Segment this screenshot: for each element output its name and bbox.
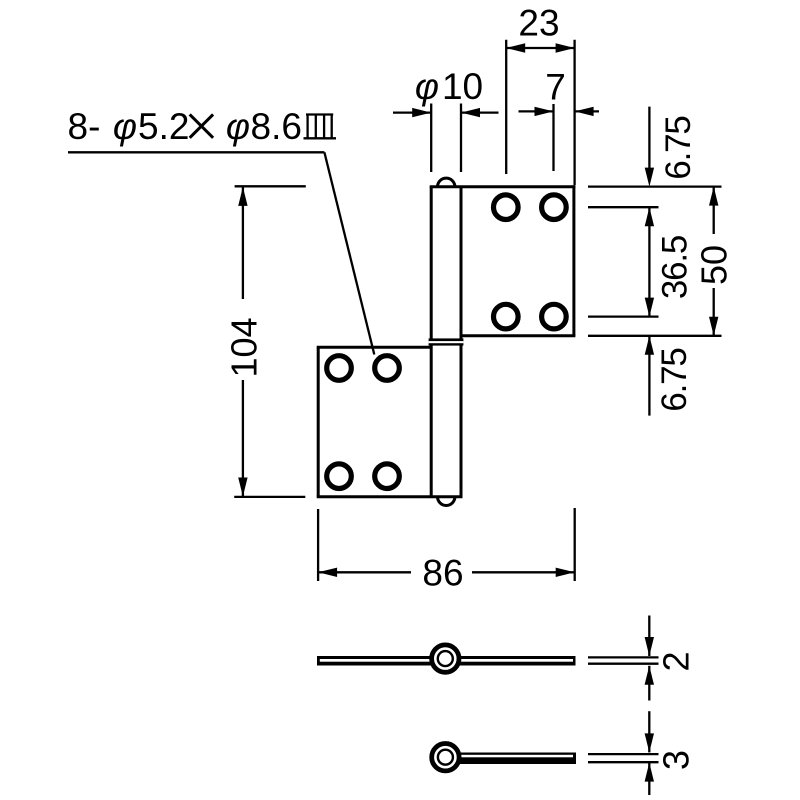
svg-text:2: 2 (656, 651, 697, 671)
svg-text:φ: φ (113, 106, 137, 147)
svg-text:6.75: 6.75 (659, 116, 698, 179)
svg-text:7: 7 (545, 67, 566, 108)
svg-text:50: 50 (694, 245, 735, 285)
svg-text:23: 23 (518, 2, 559, 43)
svg-text:8.6: 8.6 (251, 106, 302, 147)
svg-text:36.5: 36.5 (656, 236, 695, 299)
svg-text:5.2: 5.2 (138, 106, 189, 147)
svg-text:6.75: 6.75 (655, 348, 694, 411)
svg-text:φ: φ (226, 106, 250, 147)
svg-text:φ10: φ10 (415, 66, 483, 107)
svg-text:86: 86 (422, 553, 463, 594)
svg-text:104: 104 (224, 317, 265, 377)
svg-text:3: 3 (656, 750, 697, 770)
svg-text:8-: 8- (68, 106, 101, 147)
